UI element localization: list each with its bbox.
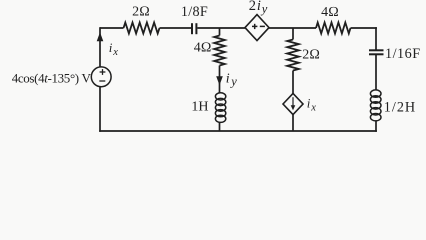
resistor R 4ohm (top right) — [316, 23, 351, 34]
capacitor C 1/8F — [192, 23, 196, 34]
svg-text:2Ω: 2Ω — [302, 48, 320, 63]
wire capacitor to inductor 1/2H — [375, 54, 377, 90]
svg-text:2Ω: 2Ω — [132, 5, 150, 20]
wire 4ohm to top-right corner — [351, 27, 377, 29]
wire node B down to 2ohm vertical resistor — [292, 28, 294, 40]
resistor R 4ohm (vertical middle) — [214, 36, 225, 66]
svg-text:4Ω: 4Ω — [321, 5, 339, 20]
voltage source V1 4cos(4t-135)V — [91, 67, 111, 87]
wire between 2ohm and capacitor 1/8F — [160, 27, 192, 29]
wire left side: top corner down to arrow/source — [99, 27, 101, 67]
dependent voltage source U 2iy (diamond) — [245, 15, 269, 41]
wire resistor to inductor with iy arrow — [219, 66, 221, 94]
svg-text:iy: iy — [226, 71, 238, 88]
svg-text:2iy: 2iy — [249, 0, 268, 16]
wire bottom rail — [99, 130, 377, 132]
svg-text:1/2H: 1/2H — [384, 100, 416, 116]
resistor R 2ohm (top left) — [124, 23, 160, 34]
current arrow iy (down) — [216, 76, 223, 85]
wire diamond to 4ohm resistor (node B at x=293) — [269, 27, 316, 29]
inductor L 1H — [215, 93, 225, 123]
wire source to bottom-left corner — [99, 87, 101, 132]
wire inductor to bottom rail — [219, 122, 221, 131]
svg-text:4Ω: 4Ω — [194, 41, 212, 56]
wire top-left: corner to 2ohm resistor — [100, 27, 124, 29]
current arrow ix (up) — [97, 32, 104, 41]
svg-text:1/16F: 1/16F — [385, 46, 421, 62]
svg-text:1/8F: 1/8F — [181, 4, 208, 20]
resistor R 2ohm (vertical) — [287, 40, 299, 71]
wire node A down to 4ohm vertical resistor — [219, 28, 221, 36]
wire right side down to capacitor 1/16F — [375, 27, 377, 49]
wire capacitor to dependent source diamond (node A at x=219.5) — [197, 27, 245, 29]
dependent current source U ix (diamond, arrow down) — [283, 93, 303, 114]
wire diamond to bottom rail — [292, 115, 294, 131]
wire resistor to current source diamond — [292, 71, 294, 94]
svg-text:1H: 1H — [191, 100, 208, 115]
wire inductor to bottom-right corner — [375, 120, 377, 131]
svg-text:4cos(4t-135°) V: 4cos(4t-135°) V — [12, 71, 92, 86]
capacitor C 1/16F — [369, 50, 384, 54]
inductor L 1/2H — [370, 90, 381, 121]
